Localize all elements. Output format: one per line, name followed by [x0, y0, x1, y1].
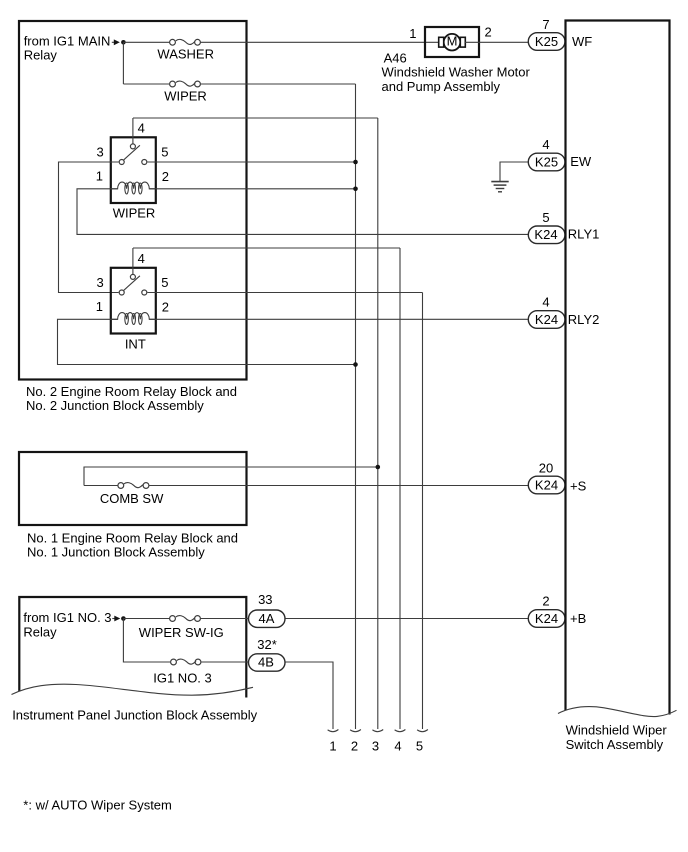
ground wire from K25 EW	[500, 162, 528, 181]
svg-text:WIPER SW-IG: WIPER SW-IG	[139, 625, 224, 640]
svg-text:from IG1 NO. 3: from IG1 NO. 3	[23, 610, 111, 625]
arrow from IG1 NO. 3 feed	[112, 616, 120, 622]
svg-text:5: 5	[542, 210, 549, 225]
svg-text:RLY2: RLY2	[568, 312, 600, 327]
No. 1 Engine Room Relay Block box	[19, 452, 247, 525]
svg-text:1: 1	[409, 26, 416, 41]
connector K24 pin 2 (+B)	[528, 610, 565, 628]
fuse WASHER	[170, 39, 201, 45]
svg-text:4A: 4A	[259, 611, 275, 626]
wire: 4A to K24 +B	[286, 618, 529, 620]
wire: WIPER relay pin 3 to INT relay pin 3	[59, 162, 119, 293]
svg-text:2: 2	[351, 738, 358, 753]
svg-text:2: 2	[542, 594, 549, 609]
svg-text:K24: K24	[534, 227, 557, 242]
arrow from IG1 MAIN feed	[112, 39, 120, 45]
wire: bus 2 vertical	[355, 84, 357, 729]
svg-text:No. 1 Junction Block Assembly: No. 1 Junction Block Assembly	[27, 544, 205, 559]
connector K25 pin 4 (EW)	[528, 153, 565, 171]
label: from IG1 NO. 3 Relay	[23, 610, 111, 639]
svg-text:4: 4	[394, 738, 401, 753]
connector 4A pin 33	[249, 610, 286, 627]
svg-text:+S: +S	[570, 478, 587, 493]
svg-text:3: 3	[96, 275, 103, 290]
svg-text:No. 1 Engine Room Relay Block: No. 1 Engine Room Relay Block and	[27, 530, 238, 545]
wire: WIPER relay pin 1 to K24 RLY1	[77, 189, 528, 235]
svg-text:K24: K24	[535, 611, 558, 626]
relay WIPER	[111, 118, 156, 203]
svg-text:K24: K24	[535, 312, 558, 327]
label: No. 1 Engine Room Relay Block and / No. 1 Junction Block Assembly	[27, 530, 238, 559]
svg-text:WIPER: WIPER	[113, 206, 156, 221]
svg-text:5: 5	[161, 275, 168, 290]
svg-text:RLY1: RLY1	[568, 227, 600, 242]
node: junction dot bus2/pin2	[353, 187, 358, 192]
svg-text:WIPER: WIPER	[164, 88, 207, 103]
svg-text:2: 2	[162, 169, 169, 184]
wire: feed to WASHER fuse	[123, 41, 169, 43]
wire: INT relay pin 1 to bus 2	[58, 319, 356, 364]
label: No. 2 Engine Room Relay Block and / No. 2 Junction Block Assembly	[26, 384, 237, 413]
label: Windshield Wiper Switch Assembly	[566, 723, 668, 752]
wire break tilde bus 5	[417, 730, 428, 732]
svg-text:COMB SW: COMB SW	[100, 491, 164, 506]
node: junction dot bus2/pin5	[353, 160, 358, 165]
relay INT	[111, 248, 156, 334]
svg-text:+B: +B	[570, 611, 586, 626]
connector K24 pin 4 (RLY2)	[528, 311, 565, 329]
svg-text:WF: WF	[572, 34, 592, 49]
svg-text:3: 3	[96, 145, 103, 160]
wire: WIPER relay pin 2 to bus 2	[149, 188, 355, 190]
wire break tilde bus 2	[350, 730, 361, 732]
svg-text:*: w/ AUTO Wiper System: *: w/ AUTO Wiper System	[23, 797, 172, 812]
svg-text:7: 7	[542, 17, 549, 32]
svg-text:Switch Assembly: Switch Assembly	[566, 737, 664, 752]
Windshield Wiper Switch Assembly box	[558, 21, 677, 717]
svg-text:from IG1 MAIN: from IG1 MAIN	[24, 33, 111, 48]
wire: INT relay pin 2 to K24 RLY2	[149, 318, 528, 320]
svg-text:IG1 NO. 3: IG1 NO. 3	[153, 670, 212, 685]
wire break tilde bus 1	[328, 730, 339, 732]
svg-text:Windshield Wiper: Windshield Wiper	[566, 723, 668, 738]
node: IG1 MAIN junction dot	[121, 40, 126, 45]
wire: COMB SW top link to bus 3	[84, 467, 378, 486]
wire: bus 4 vertical	[399, 248, 401, 729]
svg-text:4: 4	[542, 137, 549, 152]
svg-text:4B: 4B	[258, 655, 274, 670]
wire: WIPER relay pin 5 to bus 2	[147, 161, 355, 163]
svg-text:Relay: Relay	[23, 624, 57, 639]
wire: motor pin 2 to K25 WF	[465, 41, 528, 43]
motor A46 Windshield Washer Motor and Pump Assembly	[425, 27, 479, 57]
connector K25 pin 7 (WF)	[528, 33, 565, 51]
label: A46 Windshield Washer Motor and Pump Assembly	[382, 50, 531, 93]
wire break tilde bus 3	[372, 730, 383, 732]
wire: COMB SW to +S pill	[149, 485, 528, 487]
No. 2 Engine Room Relay Block box	[19, 21, 247, 380]
label: from IG1 MAIN Relay	[24, 33, 111, 62]
svg-text:4: 4	[138, 251, 145, 266]
wire: COMB SW row to K24 +S	[84, 485, 118, 487]
wire: feed to WIPER SW-IG fuse	[123, 618, 169, 620]
svg-text:4: 4	[138, 121, 145, 136]
svg-text:K25: K25	[535, 34, 558, 49]
switch COMB SW	[118, 483, 149, 489]
wire: WIPER relay pin 4 to bus 3	[133, 117, 378, 119]
svg-text:M: M	[447, 34, 458, 49]
wire: WIPER fuse to bus 2	[201, 83, 356, 85]
connector K24 pin 5 (RLY1)	[528, 226, 565, 244]
wire: feed down to IG1 NO. 3 fuse	[123, 619, 170, 663]
svg-text:5: 5	[416, 738, 423, 753]
node: junction dot bus2/INT pin1	[353, 362, 358, 367]
wire: INT relay pin 4 to bus 4	[133, 247, 400, 249]
ground	[491, 182, 508, 192]
svg-text:1: 1	[329, 738, 336, 753]
svg-text:1: 1	[96, 169, 103, 184]
wire break tilde bus 4	[395, 730, 406, 732]
fuse IG1 NO. 3	[171, 659, 201, 665]
svg-text:Instrument Panel Junction Bloc: Instrument Panel Junction Block Assembly	[12, 708, 257, 723]
Instrument Panel Junction Block box	[12, 597, 254, 698]
svg-text:1: 1	[96, 299, 103, 314]
wire: bus 3 vertical	[377, 118, 379, 729]
wire: bus 5 vertical	[422, 293, 424, 730]
node: IG1 NO. 3 junction dot	[121, 616, 126, 621]
svg-text:2: 2	[485, 25, 492, 40]
node: junction dot bus3/COMB SW	[376, 465, 381, 470]
svg-text:K25: K25	[535, 154, 558, 169]
svg-text:Relay: Relay	[24, 48, 58, 63]
fuse WIPER SW-IG	[170, 616, 201, 622]
svg-text:No. 2 Engine Room Relay Block: No. 2 Engine Room Relay Block and	[26, 384, 237, 399]
svg-text:2: 2	[162, 299, 169, 314]
connector 4B pin 32*	[249, 654, 286, 671]
svg-text:33: 33	[258, 592, 272, 607]
svg-text:4: 4	[542, 295, 549, 310]
connector K24 pin 20 (+S)	[528, 476, 565, 494]
svg-text:EW: EW	[570, 154, 592, 169]
svg-text:20: 20	[539, 461, 553, 476]
svg-text:and Pump Assembly: and Pump Assembly	[382, 79, 501, 94]
wire: 4B to bus 1	[286, 662, 334, 729]
svg-text:INT: INT	[125, 336, 146, 351]
svg-text:5: 5	[161, 144, 168, 159]
svg-text:K24: K24	[535, 477, 558, 492]
wire: INT relay pin 5 to bus 5	[147, 292, 422, 294]
svg-text:3: 3	[372, 738, 379, 753]
svg-text:WASHER: WASHER	[157, 46, 214, 61]
fuse WIPER	[170, 81, 201, 87]
wire: feed down to WIPER fuse	[123, 42, 169, 84]
svg-text:32*: 32*	[257, 637, 277, 652]
wire: fuse to 4B pill	[201, 661, 248, 663]
svg-text:Windshield Washer Motor: Windshield Washer Motor	[382, 65, 531, 80]
svg-text:A46: A46	[384, 50, 407, 65]
svg-text:No. 2 Junction Block Assembly: No. 2 Junction Block Assembly	[26, 398, 204, 413]
wire: WASHER fuse to motor	[201, 41, 439, 43]
wire: fuse to 4A pill	[201, 618, 248, 620]
